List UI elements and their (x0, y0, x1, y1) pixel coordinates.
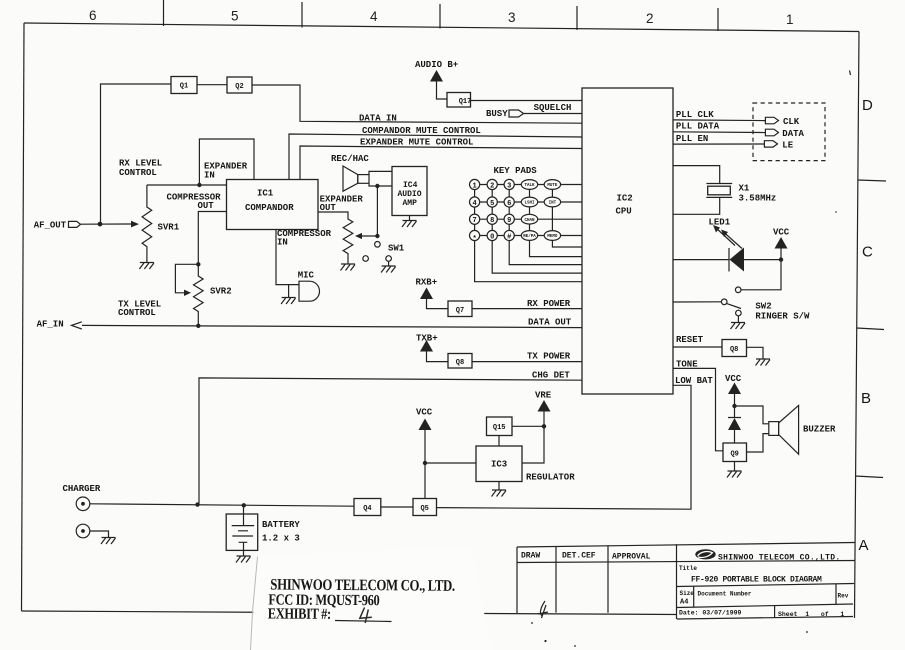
wire: AUDIO B+ to Q17 (437, 82, 448, 100)
svg-text:C: C (862, 244, 873, 261)
wire: VCC node down to SW2 contact (741, 249, 781, 290)
junction SVR2 bottom on AF_IN line (196, 324, 200, 328)
svg-text:CONTROL: CONTROL (118, 308, 156, 318)
svg-text:REC/HAC: REC/HAC (331, 154, 369, 164)
svg-text:3: 3 (508, 10, 516, 25)
svg-text:AUDIO: AUDIO (398, 190, 422, 199)
wire: SVR2 wiper arm (175, 264, 198, 293)
crystal X1 3.58MHz (706, 184, 732, 198)
svg-text:VRE: VRE (535, 391, 552, 401)
wire: Q15 to IC3 (498, 436, 500, 447)
svg-text:TX POWER: TX POWER (527, 352, 571, 362)
wire: keypad column links (475, 189, 553, 230)
junction SVR2 top node (196, 262, 200, 266)
svg-text:TALK: TALK (524, 184, 535, 188)
ground under IC3 (498, 482, 500, 491)
svg-text:LOW BAT: LOW BAT (675, 376, 713, 386)
potentiometer SVR2 (194, 264, 204, 326)
LED emission arrows (715, 227, 742, 249)
svg-text:Document Number: Document Number (698, 591, 752, 598)
svg-text:2: 2 (646, 11, 654, 26)
svg-text:CHG DET: CHG DET (532, 371, 570, 381)
wire: IC1 to MIC (276, 230, 299, 285)
key 3 (504, 179, 514, 189)
svg-text:COMPANDOR: COMPANDOR (245, 203, 294, 213)
svg-text:INT: INT (549, 202, 557, 206)
ground under SVR1 (139, 263, 154, 270)
svg-text:4: 4 (370, 9, 378, 24)
svg-text:Rev: Rev (838, 593, 849, 600)
transistor Q15 (487, 417, 513, 436)
svg-text:PLL EN: PLL EN (676, 134, 708, 144)
exhibit stamp overlay (251, 547, 493, 650)
svg-text:Title: Title (679, 565, 697, 572)
switch SW2 ringer (735, 287, 741, 293)
svg-text:CONTROL: CONTROL (119, 168, 157, 178)
svg-text:6: 6 (507, 200, 511, 208)
IC2 CPU (582, 88, 673, 394)
wire: COMPANDOR MUTE CONTROL (289, 134, 582, 180)
svg-text:3.58MHz: 3.58MHz (739, 194, 777, 204)
transistor Q8 (448, 354, 472, 369)
key 5 (487, 197, 497, 207)
key INT (544, 197, 560, 207)
resistor expander out (318, 212, 353, 264)
svg-text:Q7: Q7 (456, 307, 464, 315)
svg-text:Size: Size (680, 590, 695, 597)
svg-text:EXPANDER MUTE CONTROL: EXPANDER MUTE CONTROL (360, 137, 473, 147)
svg-text:VCC: VCC (725, 374, 742, 384)
svg-text:Q15: Q15 (493, 424, 506, 432)
pin LE connector (764, 141, 777, 147)
svg-text:CPU: CPU (616, 207, 632, 217)
svg-text:SW1: SW1 (388, 244, 405, 254)
wire: node to IC3 (425, 462, 476, 464)
wire: TX POWER to CPU (472, 361, 582, 363)
svg-text:Q8: Q8 (456, 359, 464, 367)
junction VCC/IC3 node (423, 461, 427, 465)
svg-text:IC3: IC3 (491, 460, 507, 470)
svg-text:Q4: Q4 (363, 505, 371, 513)
svg-text:X1: X1 (739, 184, 750, 194)
wire: Q5 rail to LOW BAT riser (437, 385, 692, 509)
svg-text:IN: IN (277, 238, 288, 248)
wire: CPU to LED (673, 259, 729, 261)
wire: charger rail to Q4 (90, 504, 354, 506)
svg-text:Q9: Q9 (730, 451, 738, 459)
svg-text:Date: 03/07/1999: Date: 03/07/1999 (679, 610, 742, 617)
key 6 (504, 197, 514, 207)
wire: Q17 to CPU (471, 100, 583, 102)
wire: Q9 to buzzer (747, 434, 770, 452)
svg-text:Q17: Q17 (459, 98, 472, 106)
svg-text:RXB+: RXB+ (416, 278, 438, 288)
wire: Q1 to Q2 (197, 84, 227, 86)
wire: LED to VCC node (744, 259, 781, 261)
wire: SQUELCH to CPU (524, 113, 583, 115)
svg-text:3: 3 (507, 182, 511, 190)
junction jack node (375, 184, 379, 188)
wire: diode node to buzzer (735, 406, 770, 424)
pin CLK connector (765, 117, 778, 124)
key * (470, 230, 480, 240)
wire: TXB+ to Q8 (427, 352, 449, 362)
transistor Q4 (354, 499, 381, 516)
svg-text:LE: LE (782, 141, 793, 151)
key 0 (487, 230, 497, 240)
svg-text:CHARGER: CHARGER (63, 484, 101, 494)
svg-text:SVR1: SVR1 (158, 223, 180, 233)
wire: Q2 to DATA IN line into CPU (252, 85, 582, 123)
battery BATTERY 1.2 x 3 (243, 505, 245, 525)
wire: CHG DET line and drop to charger rail (199, 378, 582, 504)
svg-text:DATA IN: DATA IN (359, 114, 397, 124)
svg-text:EXHIBIT #:: EXHIBIT #: (268, 605, 331, 623)
svg-text:4: 4 (472, 200, 476, 208)
IC1 compandor box (227, 180, 319, 230)
svg-text:MIC: MIC (298, 271, 315, 281)
svg-text:AF_OUT: AF_OUT (34, 221, 67, 231)
title block (517, 71, 855, 647)
key 2 (487, 179, 497, 189)
transistor Q8 (reset) (722, 340, 747, 357)
wire: RXB+ to Q7 (427, 299, 449, 309)
key # (504, 230, 514, 240)
wire: EXPANDER MUTE CONTROL (300, 146, 582, 180)
key 1 (470, 179, 480, 189)
svg-text:VCC: VCC (773, 228, 790, 238)
svg-text:IC2: IC2 (617, 194, 633, 204)
svg-text:CHAN: CHAN (524, 219, 535, 223)
key TALK (521, 180, 537, 190)
wire: VCC into Q5 top (424, 430, 426, 499)
svg-text:DATA OUT: DATA OUT (528, 318, 572, 328)
wire: jack to IC4 (369, 171, 392, 186)
svg-text:DET.CEF: DET.CEF (562, 552, 596, 561)
handwritten exhibit number 4 (360, 608, 372, 624)
ground under SW2 (737, 316, 739, 323)
svg-text:IC1: IC1 (257, 189, 274, 199)
svg-text:DRAW: DRAW (521, 552, 540, 561)
wire: Q8 reset to ground (747, 347, 764, 359)
svg-text:7: 7 (472, 217, 476, 225)
svg-text:VCC: VCC (416, 408, 433, 418)
ground under SW1 (388, 262, 390, 266)
svg-text:Q2: Q2 (235, 83, 243, 91)
ground under IC4 (409, 216, 411, 221)
potentiometer SVR1 (142, 185, 152, 263)
svg-text:PLL CLK: PLL CLK (676, 110, 714, 120)
key 7 (470, 214, 480, 224)
charger jack sleeve (76, 524, 90, 538)
ground under battery (243, 550, 245, 556)
regulator IC3 (476, 446, 522, 482)
svg-text:BATTERY: BATTERY (262, 520, 300, 530)
svg-text:Q8: Q8 (730, 346, 738, 354)
svg-text:RINGER S/W: RINGER S/W (755, 312, 810, 322)
svg-text:1.2 x 3: 1.2 x 3 (262, 534, 300, 544)
svg-text:1: 1 (472, 182, 476, 190)
wire: Q4 to Q5 (381, 506, 413, 508)
junction AF_OUT node (98, 222, 103, 227)
svg-text:RESET: RESET (676, 335, 704, 345)
ground stub at MIC (288, 285, 290, 298)
svg-text:AMP: AMP (403, 199, 418, 208)
wire: keypad rows to CPU (538, 185, 582, 236)
svg-text:Q1: Q1 (180, 83, 188, 91)
wire: AF_IN / DATA OUT line to CPU (82, 325, 582, 327)
svg-text:AUDIO B+: AUDIO B+ (415, 60, 458, 70)
key 9 (504, 214, 514, 224)
svg-text:IN: IN (204, 171, 215, 181)
key MUTE (544, 180, 560, 190)
wire: VCC to diode node (734, 394, 736, 406)
svg-text:BUZZER: BUZZER (803, 425, 836, 435)
wire: CPU to SW2 (673, 301, 721, 303)
svg-text:#: # (507, 233, 511, 241)
svg-text:APPROVAL: APPROVAL (612, 553, 651, 562)
key 4 (470, 197, 480, 207)
wire: sleeve to ground (90, 531, 109, 538)
diode D (buzzer clamp) (728, 406, 741, 443)
svg-text:8: 8 (490, 217, 494, 225)
key RE/PA (521, 231, 537, 241)
key 8 (487, 214, 497, 224)
svg-text:A: A (859, 537, 869, 554)
buzzer BUZZER (769, 422, 779, 436)
svg-text:PLL DATA: PLL DATA (676, 122, 720, 132)
pin DATA connector (765, 129, 778, 136)
svg-text:REGULATOR: REGULATOR (526, 473, 575, 483)
SW2 arm (727, 304, 741, 309)
key MEMO (544, 231, 560, 241)
svg-text:LSHI: LSHI (524, 202, 535, 206)
wire: AF_OUT to SVR1 wiper arrow (81, 223, 132, 225)
ground under Q9 (734, 462, 736, 472)
svg-text:RX POWER: RX POWER (527, 299, 571, 309)
wire: keypad row links (480, 185, 545, 236)
svg-text:Q5: Q5 (420, 505, 428, 513)
svg-text:1: 1 (786, 12, 794, 27)
transistor Q2 (227, 77, 252, 93)
wire: jack node down to wiper of expander-out resistor (362, 186, 377, 236)
svg-text:B: B (861, 390, 871, 407)
svg-text:SW2: SW2 (755, 302, 771, 312)
svg-text:MUTE: MUTE (547, 184, 558, 188)
wire: keypad scan columns to CPU (475, 240, 582, 281)
svg-text:RE/PA: RE/PA (523, 234, 536, 239)
svg-text:0: 0 (490, 233, 494, 241)
wire: SVR1 top to EXPANDER IN of IC1 (147, 139, 254, 185)
transistor Q17 (447, 93, 471, 108)
ground under expander-out resistor (341, 264, 356, 271)
svg-text:LED1: LED1 (709, 218, 731, 228)
svg-text:SHINWOO TELECOM CO.,LTD.: SHINWOO TELECOM CO.,LTD. (718, 554, 840, 563)
wire: IC1 compressor out down to SVR2 (198, 212, 226, 265)
transistor Q9 (723, 443, 747, 462)
svg-text:CLK: CLK (783, 117, 800, 127)
key LSHI (521, 197, 537, 207)
transistor Q1 (171, 77, 197, 94)
svg-text:OUT: OUT (198, 201, 215, 211)
op-amp IC4 audio amp (392, 167, 427, 216)
wire: Q15 to VRE riser and IC3 right pin (512, 412, 544, 464)
transistor Q7 (448, 301, 472, 317)
junction charger rail nodes (195, 502, 199, 506)
svg-text:MEMO: MEMO (547, 235, 558, 239)
svg-text:KEY PADS: KEY PADS (494, 166, 538, 176)
junction expander-in node (197, 183, 201, 187)
svg-text:2: 2 (490, 182, 494, 190)
svg-text:FF-920 PORTABLE BLOCK DIAGRAM: FF-920 PORTABLE BLOCK DIAGRAM (691, 576, 822, 585)
svg-text:SQUELCH: SQUELCH (534, 103, 572, 113)
svg-text:DATA: DATA (782, 129, 804, 139)
transistor Q5 (413, 499, 437, 516)
svg-text:COMPANDOR MUTE CONTROL: COMPANDOR MUTE CONTROL (362, 126, 481, 136)
PLL module dashed box (753, 103, 825, 161)
svg-text:D: D (862, 97, 873, 114)
svg-text:5: 5 (490, 200, 494, 208)
wire: RX POWER to CPU (472, 308, 582, 310)
handwritten mark near title block (538, 601, 548, 618)
svg-text:Sheet 1 of 1: Sheet 1 of 1 (778, 611, 844, 618)
svg-text:9: 9 (507, 217, 511, 225)
svg-text:A4: A4 (680, 599, 688, 607)
svg-text:IC4: IC4 (403, 181, 418, 190)
svg-text:BUSY: BUSY (486, 109, 508, 119)
svg-text:SVR2: SVR2 (210, 287, 232, 297)
wire: CPU to crystal X1 loop (673, 166, 720, 215)
wire: AF_OUT node up to Q1 (101, 84, 172, 224)
svg-text:5: 5 (231, 9, 239, 24)
svg-text:6: 6 (89, 8, 97, 23)
svg-text:AF_IN: AF_IN (37, 320, 64, 330)
key CHAN (521, 214, 537, 224)
